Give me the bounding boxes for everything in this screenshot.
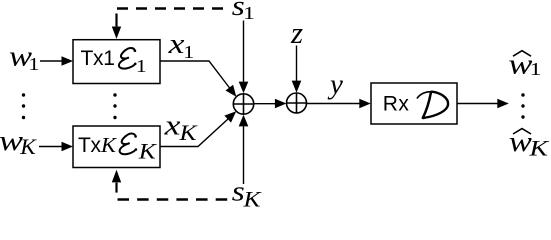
svg-text:1: 1 [28,54,39,74]
wire wK to TxK with arrowhead [39,142,73,152]
label s1 [232,0,255,23]
vertical dots between Tx boxes [113,93,116,119]
dashed state line s1 to Tx1 (top) [112,9,223,39]
wire x1 from Tx1 to adder [160,61,236,97]
wire w1 to Tx1 with arrowhead [40,56,73,66]
encoder box TxK EK [73,126,160,168]
adder node 2 (circle plus) [287,93,307,113]
label w1 [9,41,39,75]
svg-text:Tx: Tx [78,134,102,157]
svg-text:K: K [19,134,37,159]
svg-text:1: 1 [243,3,255,23]
wire s1 down to adder with arrowhead [239,21,249,94]
label wK hat [509,126,550,161]
wire adder1 to adder2 with arrowhead [254,99,287,109]
svg-text:y: y [327,69,343,101]
calligraphic D of decoder [417,92,432,98]
wire z down to adder2 with arrowhead [292,46,302,93]
svg-text:x: x [167,28,184,60]
adder node 1 (circle plus) [233,94,253,114]
label wK [0,125,37,159]
svg-text:1: 1 [183,42,194,62]
label sK [232,176,262,212]
label z [290,15,303,50]
svg-text:1: 1 [530,59,542,79]
label y [327,69,343,101]
vertical dots between w1 and wK [22,93,25,119]
svg-text:K: K [178,120,198,145]
svg-text:K: K [138,138,158,163]
calligraphic E of encoder K [120,134,138,155]
wire adder2 to Rx with arrowhead [307,99,371,109]
dashed state line sK to TxK (bottom) [112,170,228,200]
label xK [163,109,198,145]
svg-text:Rx: Rx [383,93,410,116]
wire Rx to output with arrowhead [457,99,509,109]
svg-text:x: x [163,109,180,141]
decoder box Rx D [371,83,457,124]
wire sK up to adder with arrowhead [239,115,249,184]
encoder box Tx1 E1 [73,40,160,84]
label x1 [167,28,194,62]
svg-text:z: z [290,15,303,50]
label w1 hat [508,49,541,81]
wire xK from TxK to adder [160,111,236,146]
vertical dots between output estimates [521,93,524,118]
calligraphic E of encoder 1 [119,48,135,69]
svg-text:K: K [242,186,262,208]
svg-text:1: 1 [136,56,147,76]
svg-text:Tx1: Tx1 [81,47,115,70]
svg-text:K: K [100,133,118,157]
svg-text:K: K [528,136,549,161]
